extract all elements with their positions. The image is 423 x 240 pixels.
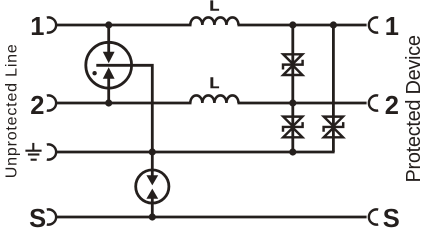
svg-text:1: 1 xyxy=(385,13,399,41)
inductor L1 xyxy=(190,17,238,25)
wire GDT2 bottom lead to S line xyxy=(151,198,154,217)
wire ground line xyxy=(56,151,334,154)
junction dot ground / GDT riser xyxy=(149,148,156,155)
terminal arc left line 2 xyxy=(47,95,56,110)
svg-text:2: 2 xyxy=(30,92,44,120)
terminal arc right S xyxy=(369,209,378,224)
junction dot line2 / TVS branch A xyxy=(289,99,296,106)
junction dot line2 / GDT1 xyxy=(105,99,112,106)
wire GDT2 top lead from ground line xyxy=(151,152,154,176)
terminal arc left S xyxy=(47,209,56,224)
svg-text:Unprotected Line: Unprotected Line xyxy=(3,44,20,178)
wire line 1 (left segment, terminal 1 to inductor) xyxy=(56,24,191,27)
svg-text:S: S xyxy=(383,205,400,228)
GDT1 gas indicator dot xyxy=(92,71,96,75)
gas discharge tube GDT2 circle (2-electrode arrester) xyxy=(136,170,169,203)
terminal arc right line 2 xyxy=(369,95,378,110)
svg-text:2: 2 xyxy=(385,92,399,120)
junction dot ground / TVS branch A xyxy=(289,148,296,155)
value label L (inductor 1) xyxy=(210,0,219,10)
TVS diode D2 (bidirectional suppressor, line2-ground) xyxy=(283,117,303,138)
terminal arc left ground xyxy=(47,144,56,159)
svg-text:S: S xyxy=(29,205,46,228)
GDT1 middle electrode bar and wire to vertical riser xyxy=(96,65,152,152)
GDT2 top arrowhead xyxy=(146,175,158,185)
TVS diode D1 (bidirectional suppressor, line1-line2) xyxy=(283,54,303,75)
junction dot S line / GDT2 xyxy=(149,213,156,220)
TVS diode D3 (bidirectional suppressor, line1-ground) xyxy=(324,117,344,138)
wire TVS branch B vertical (line1 to ground, crosses line2) xyxy=(332,25,335,152)
GDT1 top arrowhead xyxy=(103,52,115,64)
ground symbol (earth terminal) xyxy=(25,143,41,160)
terminal arc right line 1 xyxy=(369,17,378,32)
svg-text:1: 1 xyxy=(30,13,44,41)
terminal arc left line 1 xyxy=(47,17,56,32)
junction dot line1 / TVS branch B xyxy=(330,21,337,28)
value label L (inductor 2) xyxy=(210,77,219,88)
wire line 1 (right segment, inductor to terminal 1') xyxy=(238,24,367,27)
svg-text:Protected Device: Protected Device xyxy=(403,35,423,183)
wire S line xyxy=(56,216,366,219)
wire line 2 (right segment) xyxy=(238,102,367,105)
wire GDT1 top lead from line 1 xyxy=(107,25,110,54)
wire GDT1 bottom lead to line 2 xyxy=(107,77,110,103)
GDT2 bottom arrowhead xyxy=(146,189,158,199)
gas discharge tube GDT1 circle (3-electrode arrester) xyxy=(86,42,132,88)
wire TVS branch A vertical (line1 to ground) xyxy=(291,25,294,152)
junction dot line1 / TVS branch A xyxy=(289,21,296,28)
inductor L2 xyxy=(190,95,238,103)
junction dot line1 / GDT1 xyxy=(105,21,112,28)
wire line 2 (left segment) xyxy=(56,102,191,105)
GDT1 bottom arrowhead xyxy=(103,67,115,79)
